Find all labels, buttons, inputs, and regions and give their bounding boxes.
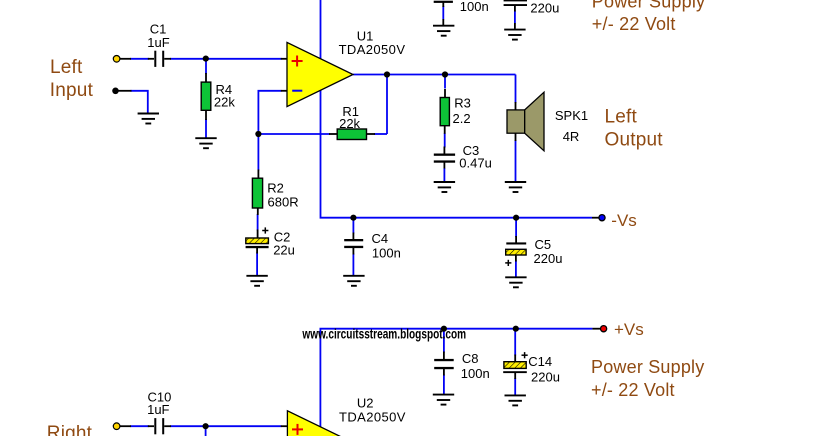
svg-text:R3: R3 (454, 95, 471, 110)
svg-text:+Vs: +Vs (614, 320, 644, 339)
svg-text:-Vs: -Vs (611, 211, 637, 230)
svg-text:SPK1: SPK1 (555, 108, 588, 123)
svg-text:Right: Right (47, 423, 93, 436)
svg-text:4R: 4R (563, 129, 580, 144)
svg-text:TDA2050V: TDA2050V (339, 409, 406, 424)
svg-text:1uF: 1uF (147, 402, 169, 417)
svg-text:TDA2050V: TDA2050V (339, 42, 406, 57)
svg-text:100n: 100n (461, 366, 490, 381)
svg-text:C4: C4 (372, 231, 389, 246)
svg-text:220u: 220u (531, 370, 560, 385)
svg-text:Input: Input (50, 80, 94, 101)
svg-text:R2: R2 (267, 181, 284, 196)
svg-text:680R: 680R (268, 195, 299, 210)
svg-text:100n: 100n (372, 245, 401, 260)
svg-text:Power Supply: Power Supply (591, 357, 704, 377)
svg-text:Left: Left (50, 57, 83, 78)
svg-text:22u: 22u (273, 243, 295, 258)
svg-text:0.47u: 0.47u (459, 156, 492, 171)
svg-text:Left: Left (605, 107, 638, 128)
svg-text:1uF: 1uF (147, 35, 169, 50)
svg-text:22k: 22k (339, 116, 360, 131)
svg-text:Power Supply: Power Supply (592, 0, 705, 11)
svg-text:+/- 22 Volt: +/- 22 Volt (591, 380, 675, 400)
svg-text:100n: 100n (460, 0, 489, 14)
svg-text:+/- 22 Volt: +/- 22 Volt (592, 14, 676, 34)
svg-text:220u: 220u (534, 251, 563, 266)
svg-text:220u: 220u (530, 0, 559, 15)
svg-text:C8: C8 (462, 351, 479, 366)
svg-text:www.circuitsstream.blogspot.co: www.circuitsstream.blogspot.com (302, 326, 467, 342)
svg-text:C14: C14 (528, 354, 552, 369)
svg-text:Output: Output (605, 129, 664, 150)
svg-text:22k: 22k (214, 95, 235, 110)
svg-text:2.2: 2.2 (453, 111, 471, 126)
